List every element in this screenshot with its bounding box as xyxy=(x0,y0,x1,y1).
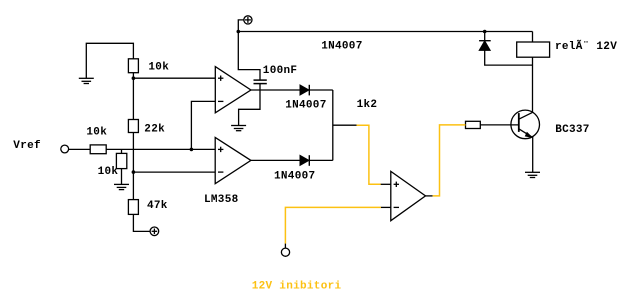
ground top-left xyxy=(79,78,94,83)
svg-text:10k: 10k xyxy=(148,62,169,74)
svg-text:10k: 10k xyxy=(86,126,107,138)
capacitor C1 100nF xyxy=(254,80,267,84)
op-amp U2 (LM358 B) xyxy=(215,138,251,184)
diode D1 1N4007 xyxy=(300,85,309,96)
pin plus mark U1 xyxy=(218,76,223,81)
pin minus mark U3 xyxy=(394,206,399,208)
pin plus mark U2 xyxy=(218,147,223,152)
wire R2 down chain xyxy=(132,133,134,200)
resistor R2 22k vertical xyxy=(128,120,138,133)
wire node B to op-amp U2 minus input xyxy=(133,171,215,173)
resistor R1 10k vertical xyxy=(128,59,138,73)
node feedback junction on Vref line xyxy=(190,148,194,152)
resistor R4 10k horizontal xyxy=(90,145,106,154)
wire R3 to power terminal xyxy=(133,214,150,231)
op-amp U1 (LM358 A) xyxy=(215,67,251,113)
wire rail corner down to relay top xyxy=(532,32,534,43)
wire U1 output xyxy=(251,89,300,91)
wire U2 output xyxy=(251,159,300,161)
wire flyback diode bottom to relay bottom xyxy=(485,50,533,65)
wire yellow U3 output to base resistor xyxy=(433,125,466,196)
ground under R5 xyxy=(114,184,129,189)
resistor R6 base resistor box xyxy=(466,121,481,128)
wire stub U3 output xyxy=(426,195,433,197)
terminal Vref input circle xyxy=(61,145,69,153)
pin minus mark U2 xyxy=(218,171,223,173)
diode D2 1N4007 xyxy=(300,155,309,166)
svg-text:1N4007: 1N4007 xyxy=(285,100,326,112)
wire node A to op-amp U1 plus input xyxy=(133,77,215,79)
wire D1 to join xyxy=(309,89,333,91)
node A junction divider xyxy=(132,76,136,80)
svg-text:47k: 47k xyxy=(147,200,168,212)
pin plus mark U3 xyxy=(394,182,399,187)
node junction rail to flyback diode xyxy=(483,30,487,34)
wire base resistor to base xyxy=(480,124,519,126)
svg-text:12V inibitori: 12V inibitori xyxy=(252,280,342,292)
svg-text:1N4007: 1N4007 xyxy=(274,170,315,182)
relay K1 coil box xyxy=(517,42,550,57)
wire yellow inhibit net to U3 minus xyxy=(285,207,381,243)
wire Vref terminal to R4 xyxy=(69,148,91,150)
svg-text:relÃ¨ 12V: relÃ¨ 12V xyxy=(555,39,617,53)
ground under op-amp U1 xyxy=(231,126,246,131)
svg-text:10k: 10k xyxy=(98,166,119,178)
diode D3 1N4007 flyback (pointing up) xyxy=(479,41,491,51)
wire R5 to ground xyxy=(121,169,123,185)
wire supply drop to cap C1 xyxy=(238,32,260,81)
wire stub to R5 xyxy=(121,149,123,153)
transistor Q1 BC337 xyxy=(511,110,540,139)
node junction on rail (supply node) xyxy=(237,30,241,34)
wire flyback diode anode drop xyxy=(484,32,486,42)
wire power terminal to rail xyxy=(238,20,243,32)
power terminal + bottom left xyxy=(150,227,159,236)
svg-text:1k2: 1k2 xyxy=(357,99,378,111)
terminal inhibit input circle xyxy=(284,244,286,249)
wire R1 to node A xyxy=(132,73,134,120)
svg-text:Vref: Vref xyxy=(13,140,41,152)
wire R4 to op-amp U2 plus input xyxy=(106,148,215,150)
wire yellow 1k2 net to U3 plus xyxy=(357,125,381,184)
svg-text:BC337: BC337 xyxy=(555,124,590,136)
pin minus mark U1 xyxy=(218,100,223,102)
wire join vertical xyxy=(332,90,334,160)
svg-text:1N4007: 1N4007 xyxy=(321,41,362,53)
wire top-left ground to divider top xyxy=(86,43,133,78)
svg-text:100nF: 100nF xyxy=(263,65,298,77)
wire stub U3 minus input xyxy=(381,206,391,208)
node B junction divider lower xyxy=(132,170,136,174)
wire U1 minus input feedback xyxy=(191,101,215,149)
wire relay bottom to collector xyxy=(532,57,534,112)
wire emitter to ground xyxy=(532,137,534,172)
ground under transistor xyxy=(525,172,540,177)
wire top supply rail xyxy=(238,31,532,33)
wire D2 to join xyxy=(309,159,333,161)
svg-text:22k: 22k xyxy=(144,124,165,136)
resistor R5 10k vertical lower xyxy=(116,153,126,168)
wire join branch to 1k2 net xyxy=(333,124,357,126)
power terminal +V top xyxy=(244,16,252,24)
svg-text:LM358: LM358 xyxy=(204,194,239,206)
op-amp U3 comparator xyxy=(391,171,426,220)
wire cap C1 bottom to ground xyxy=(239,84,260,126)
resistor R3 47k vertical xyxy=(128,200,138,215)
wire stub U3 plus input xyxy=(381,183,391,185)
